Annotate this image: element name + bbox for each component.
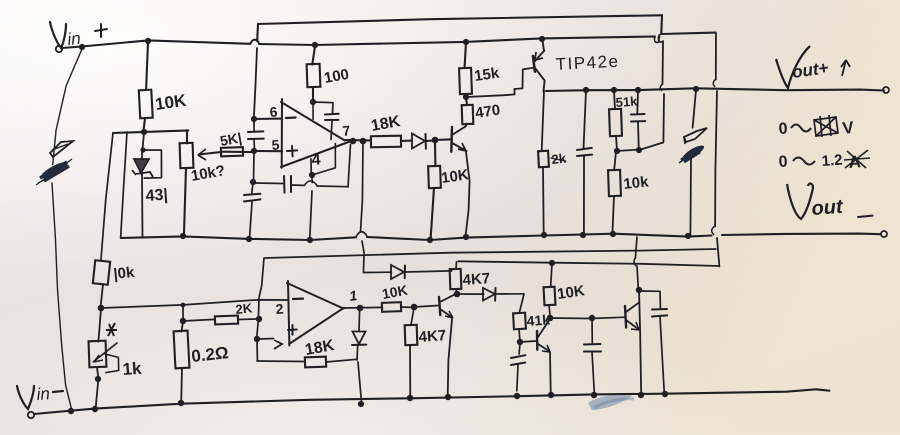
label 15K (473, 65, 501, 85)
resistor 18K (U1 out) (371, 136, 401, 148)
wire q5 vertical (634, 237, 641, 395)
op-amp U2 (287, 281, 344, 346)
wire B2 rail (458, 261, 719, 266)
junction br1 (68, 408, 74, 414)
svg-text:0: 0 (778, 120, 788, 138)
wire ref node top (113, 130, 188, 133)
junction mr 10k3 (610, 231, 616, 237)
label plus U1 (287, 146, 297, 156)
wire 2K3 right lead (238, 318, 259, 321)
junction br6 (514, 393, 520, 399)
pin 6 wire (254, 118, 282, 121)
wire 4k7a top lead (411, 308, 414, 325)
wire 15K bottom lead (465, 94, 466, 97)
wire fb left (257, 360, 305, 363)
diode D1 (412, 134, 436, 149)
wire 10K4 right (401, 306, 414, 309)
label Vout+ (776, 46, 850, 88)
wire 10kbl bottom lead (100, 284, 103, 309)
wire 2k bottom lead (542, 167, 545, 235)
junction out7 b (360, 138, 367, 145)
svg-text:out: out (811, 196, 845, 220)
wire 18K to diode (401, 140, 412, 142)
potentiometer 10K? (180, 143, 194, 168)
wire output1 down (361, 142, 365, 254)
label 10K4 (381, 282, 409, 302)
wire U1 output (344, 139, 371, 141)
wire mid rail (121, 232, 880, 240)
wire thin left drop (52, 49, 82, 408)
svg-text:4K7: 4K7 (418, 327, 447, 346)
junction 51K bottom (614, 148, 620, 154)
capacitor C6 (41k node) (511, 343, 525, 391)
terminal Vin- (28, 412, 34, 418)
label 2k (551, 150, 568, 167)
junction br5 (445, 394, 451, 400)
zener diode 431 (132, 151, 153, 238)
junction zener top (140, 147, 145, 152)
label 0~1.2A (778, 150, 870, 172)
junction 15K top (463, 39, 469, 45)
wire B1 rail (265, 249, 716, 258)
wire q4 emitter down (549, 352, 552, 392)
wire B1 corner down (259, 258, 265, 300)
svg-text:51k: 51k (615, 93, 638, 110)
wire diode3 chain (363, 255, 391, 273)
svg-text:4: 4 (311, 151, 321, 169)
label 10K5 (556, 282, 586, 303)
svg-text:0.2Ω: 0.2Ω (190, 343, 229, 366)
wire 02 top lead (181, 322, 183, 332)
svg-text:0: 0 (778, 153, 788, 171)
label 470 (474, 102, 501, 122)
resistor 10K (Q2 base) (428, 166, 441, 188)
wire feedback y186 (253, 145, 351, 193)
wire 4k7b bottom lead (455, 289, 458, 295)
transistor Q4 (537, 320, 550, 352)
svg-text:|0k: |0k (113, 264, 136, 283)
wire 2k3-vert (257, 300, 259, 339)
capacitor C2 (below pin5) (244, 183, 260, 238)
label 10K1 (154, 91, 188, 114)
crossed diode scribble (106, 323, 117, 336)
capacitor C4 (577, 91, 592, 236)
capacitor C7 (584, 318, 601, 395)
junction vr4 (693, 86, 699, 92)
wire 15K top lead (465, 43, 467, 68)
label 2K3 (235, 300, 254, 317)
junction vr2 (611, 87, 617, 93)
resistor 51K (609, 109, 622, 136)
wire 10k3 bottom lead (612, 196, 614, 234)
svg-text:1.2: 1.2 (821, 152, 843, 170)
capacitor C1 (pins 5-6) (248, 120, 264, 151)
label 10K2 (440, 166, 470, 187)
wire Vout+ rail (546, 88, 884, 91)
wire pot top lead (186, 131, 188, 144)
wire pin5 chain down (253, 152, 256, 182)
junction out7 a (350, 138, 357, 145)
junction c7 top (589, 315, 595, 321)
wire 41k top lead (519, 294, 524, 313)
svg-text:41k: 41k (526, 311, 551, 329)
junction mr cap2 (246, 236, 252, 242)
label 10k3 (623, 173, 650, 193)
junction vr1 (583, 87, 589, 93)
wire tap to 2K3 (183, 319, 214, 321)
junction br3 (178, 400, 184, 406)
junction pin3 node (254, 336, 260, 342)
resistor 100 (307, 64, 321, 87)
label Vin+ (50, 22, 107, 49)
wire 02 bottom lead (180, 368, 183, 402)
junction pin6 node (251, 116, 257, 122)
junction d3 node (454, 291, 461, 298)
wire V+ rail (62, 33, 716, 48)
resistor 10K (input divider) (139, 90, 153, 119)
label 1k (122, 359, 143, 379)
junction cap2 top (250, 179, 256, 185)
wire pin3 wire (257, 338, 274, 341)
wire node318 (550, 317, 625, 318)
svg-text:5: 5 (271, 136, 280, 153)
wire 51K bottom lead (616, 136, 617, 150)
junction br8 (591, 392, 597, 398)
svg-text:TIP42e: TIP42e (555, 52, 620, 74)
junction D1 node (432, 137, 439, 144)
junction br2 (92, 406, 98, 412)
svg-text:4K7: 4K7 (462, 270, 491, 289)
wire 470 top lead (465, 99, 468, 105)
junction node ref (141, 129, 147, 135)
junction 41k bottom (517, 339, 523, 345)
junction mr 2k (541, 232, 547, 238)
label pin1 (348, 287, 358, 304)
wire 4k7b top lead (455, 262, 458, 269)
capacitor C3 (comp) (313, 102, 339, 139)
resistor 10k (51K chain) (608, 170, 621, 196)
wire fb vert (256, 340, 258, 361)
wire far right vertical (712, 33, 720, 267)
label Vin- (17, 384, 63, 409)
svg-text:2K: 2K (235, 300, 254, 317)
wire pot wiper arrow (198, 149, 252, 160)
junction li 02 (181, 303, 186, 308)
svg-text:2: 2 (275, 300, 284, 317)
potentiometer 1K (89, 341, 107, 368)
label TIP42C (555, 52, 620, 74)
wire ref left branch (101, 133, 113, 261)
wire fb right (326, 359, 357, 362)
wire 10K1 top lead (146, 42, 148, 89)
wire zener top lead (142, 133, 144, 150)
resistor 4K7 a (405, 325, 418, 345)
junction q3 base node (411, 304, 418, 311)
terminal Vout+ (883, 87, 889, 93)
pin3 chevron (274, 340, 282, 349)
wire 51K top lead (614, 91, 615, 109)
wire long input wire (101, 300, 288, 308)
resistor 2k (538, 151, 549, 168)
label minus U2 (293, 298, 303, 301)
junction Vin+ b (145, 38, 151, 44)
junction 18K rail (358, 401, 364, 407)
junction mr 10k2 (427, 237, 433, 243)
junction TIP42 emitter top (539, 36, 545, 42)
label 51k (615, 93, 638, 110)
diode D4 (457, 288, 524, 301)
wire Q2 emitter to 470 (465, 124, 468, 126)
wire pot1k bottom lead (96, 367, 99, 410)
wire pin4 down (310, 177, 313, 240)
wire outer box right edge (641, 15, 665, 150)
wire box left edge (121, 132, 127, 238)
label 10K? (190, 162, 227, 185)
junction q4 collector node (547, 315, 554, 322)
wire 10k4 top lead (551, 263, 552, 287)
svg-text:in: in (36, 384, 51, 404)
wire 5K right lead (243, 151, 254, 153)
junction pin4 (309, 172, 315, 178)
label plus U2 (288, 325, 297, 335)
wire 10K1 bottom lead (143, 118, 145, 132)
transistor Q3 (439, 294, 456, 318)
wire 10k4 bottom lead (549, 305, 550, 318)
junction mr pot (180, 233, 186, 239)
wire comp cap stub (312, 102, 314, 119)
pot 1K arrow (93, 343, 118, 373)
junction mr scribble (685, 233, 691, 239)
diode D3 (391, 265, 452, 279)
wire pin4 stub (310, 159, 312, 175)
wire 100R bottom lead (312, 87, 314, 102)
junction br9 (638, 392, 644, 398)
label pin5 (271, 136, 280, 153)
op-amp U1 (281, 99, 353, 168)
junction pot1k bottom (95, 376, 101, 382)
resistor 2K (bottom) (215, 316, 238, 325)
junction 470/15K node (463, 94, 469, 100)
wire base TIP42 (466, 68, 533, 97)
terminal Vout- mid (881, 231, 887, 237)
capacitor C5 (631, 91, 645, 150)
wire q3 collector down (448, 319, 452, 397)
label 0~15V (778, 115, 855, 138)
junction br4 (407, 395, 413, 401)
svg-text:470: 470 (474, 102, 501, 122)
pin 5 wire (254, 150, 282, 152)
junction 100R bottom (310, 99, 316, 105)
resistor 18K (U2 fb) (305, 357, 326, 368)
wire Q2 collector down (466, 152, 470, 236)
svg-text:15k: 15k (473, 65, 501, 85)
scribble crossed-out arrow right (679, 128, 707, 163)
wire 2K3 tap (182, 305, 184, 321)
capacitor C8 (639, 291, 667, 394)
wire pot bottom lead (184, 168, 186, 236)
label 18K (370, 113, 402, 135)
label minus U1 (286, 116, 296, 119)
wire pin4 to output (312, 144, 335, 176)
wire U2 output (344, 306, 382, 309)
wire q3 base (414, 306, 438, 308)
wire 51K to C5 node (617, 150, 639, 151)
junction q5 node (636, 287, 642, 293)
junction 2K3 right (256, 316, 262, 322)
resistor 10k (bottom left) (93, 260, 110, 284)
label 5K (219, 129, 243, 149)
svg-text:6: 6 (269, 103, 278, 120)
label pin7 (342, 122, 352, 139)
wire scribble vertical (690, 90, 696, 236)
transistor Q1 TIP42C (533, 41, 545, 92)
resistor 0.2 ohm (174, 331, 190, 369)
diode D2 vertical (352, 310, 366, 360)
label 4K7b (462, 270, 491, 289)
junction mr q2 (463, 234, 469, 240)
wire 100R top lead (312, 46, 315, 65)
junction mr pin4 (307, 237, 313, 243)
label 431 (145, 186, 168, 205)
junction bl node (98, 305, 105, 312)
junction vr3 (635, 87, 641, 93)
label 0.2ohm (190, 343, 229, 366)
wire 41k bottom lead (519, 329, 520, 342)
junction C5 bottom (636, 147, 642, 153)
wire q4 base wire (520, 341, 536, 342)
resistor 5K (221, 147, 243, 156)
junction tap (180, 318, 186, 324)
wire 10K2 top lead (434, 141, 436, 166)
resistor 10K (U2 out) (382, 302, 401, 312)
junction out1 (357, 305, 364, 312)
label 100 (323, 66, 351, 87)
label 18K2 (304, 337, 336, 359)
junction B2 10k4 (549, 260, 555, 266)
svg-text:43|: 43| (145, 186, 168, 205)
junction br10 (662, 391, 668, 397)
scribble crossed-out part left (36, 141, 73, 185)
label Vout- (787, 184, 873, 220)
resistor 15K (459, 68, 472, 94)
label 4K7a (418, 327, 447, 346)
junction 100R top (312, 42, 318, 48)
junction Vin+ a (79, 44, 85, 50)
wire outer box left edge (254, 24, 258, 119)
label pin2 (275, 300, 284, 317)
wire D1 to Q2 base (436, 138, 452, 141)
transistor Q5 (625, 302, 639, 330)
wire zener loop (143, 150, 162, 178)
resistor 41K (513, 313, 526, 330)
terminal Vin+ (56, 46, 62, 52)
wire 2k2 top lead (542, 91, 544, 151)
junction br7 (548, 392, 554, 398)
wire 10K2 bottom lead (431, 188, 434, 239)
label 10k bl (113, 264, 136, 283)
resistor 4K7 b (450, 269, 462, 289)
transistor Q2 (451, 126, 466, 151)
svg-text:10k: 10k (623, 173, 650, 193)
blue smudge (588, 395, 634, 410)
wire pot1k top lead (98, 309, 101, 342)
svg-text:1k: 1k (122, 359, 143, 379)
wire 10k3 top (614, 152, 616, 170)
junction pin5 node (251, 148, 257, 154)
label pin6 (269, 103, 278, 120)
wire bottom rail (34, 389, 829, 414)
wire 18K node to rail (358, 362, 362, 403)
wire outer box top (258, 15, 661, 24)
junction mr c4 (580, 232, 586, 238)
wire 4k7a bottom lead (409, 345, 411, 398)
resistor 10K (bot right) (544, 287, 556, 306)
resistor 470 (462, 105, 474, 124)
label pin4 (311, 151, 321, 169)
label 41k (526, 311, 551, 329)
